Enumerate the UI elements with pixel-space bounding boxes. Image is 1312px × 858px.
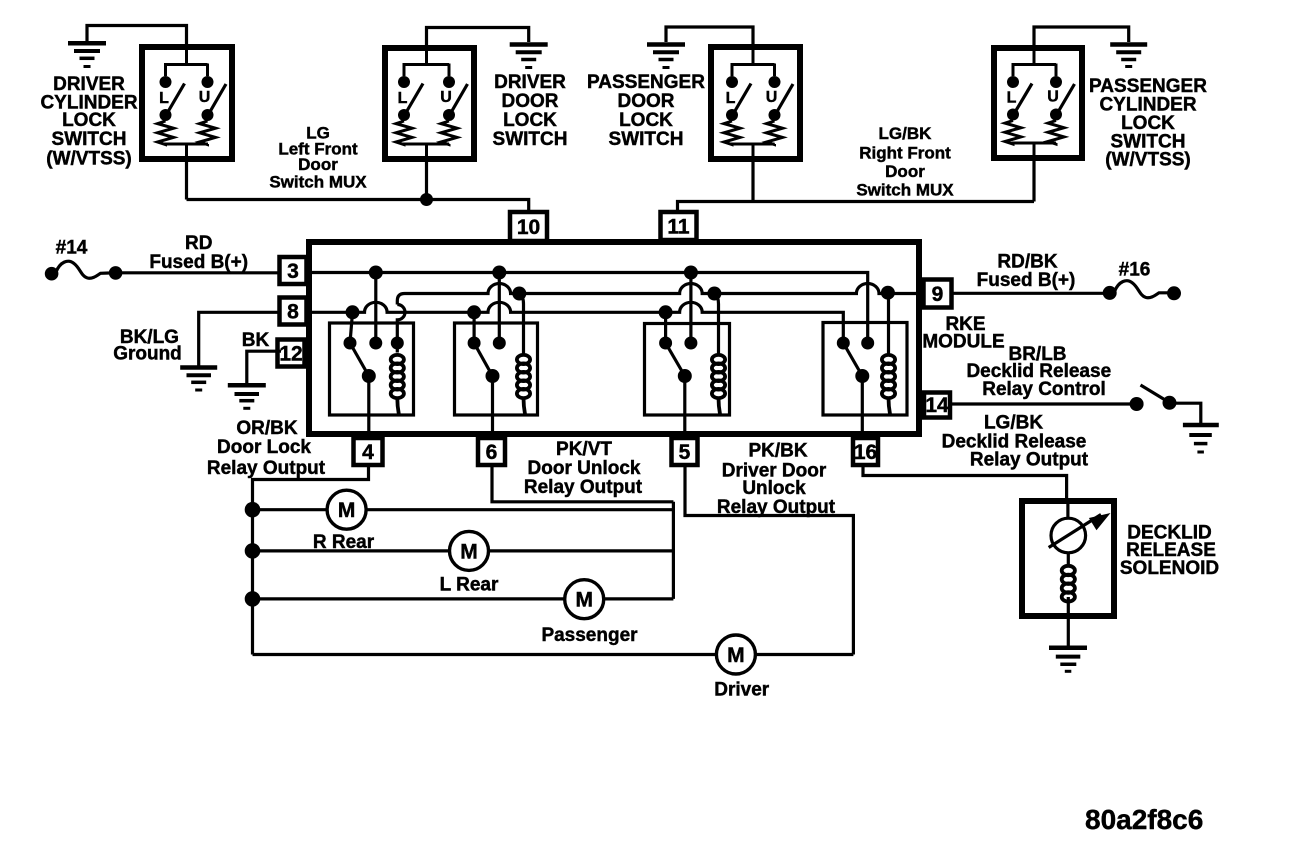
svg-text:Door Unlock: Door Unlock: [528, 458, 641, 479]
junction dot coil bus K4: [881, 286, 895, 300]
wire pin 14 to decklid release switch: [948, 402, 1130, 405]
label PASSENGER CYLINDER LOCK SWITCH (W/VTSS): [1089, 76, 1207, 171]
relay K4 coil: [882, 355, 895, 414]
wire pivot stub K2: [473, 312, 476, 343]
svg-text:SWITCH: SWITCH: [52, 129, 127, 150]
svg-text:U: U: [1047, 89, 1059, 106]
svg-text:Door: Door: [298, 155, 338, 174]
svg-text:SWITCH: SWITCH: [609, 129, 684, 150]
svg-text:BK: BK: [242, 330, 270, 351]
svg-text:LG/BK: LG/BK: [879, 124, 933, 143]
relay K2 coil: [517, 355, 530, 414]
pin 10: [510, 212, 547, 241]
relay K2 contact dots: [468, 337, 506, 384]
junction dot coil bus K2: [512, 287, 526, 301]
svg-text:U: U: [766, 89, 778, 106]
relay K3 blade: [666, 343, 685, 376]
RKE module box U1: [309, 242, 919, 434]
svg-text:6: 6: [486, 441, 498, 464]
wire motor line Passenger: [253, 597, 674, 600]
wire coil bus to pin 9 with hops: [397, 283, 922, 304]
wire bus fused B+ (pin 3): [306, 273, 868, 344]
wire motor line R Rear: [253, 508, 674, 511]
relay K4 box: [823, 323, 907, 416]
svg-text:Door Lock: Door Lock: [217, 437, 311, 458]
wire pivot stub K1: [350, 312, 353, 343]
wire K1 coil lead hop over pin8 bus: [397, 305, 405, 353]
wire K1 output to pin 4: [367, 376, 370, 440]
wire SW2 top lead to ground: [427, 28, 529, 51]
svg-text:16: 16: [854, 441, 877, 464]
relay K1 blade: [350, 343, 369, 376]
wire RD fused B+ to pin 3: [122, 271, 282, 274]
svg-text:(W/VTSS): (W/VTSS): [1105, 150, 1191, 171]
wire pin 8 to ground: [199, 312, 281, 366]
junction dot bus3 over relay K2: [492, 266, 506, 280]
motor M1 R Rear: [327, 490, 366, 529]
wire K4 output to pin 16: [861, 376, 864, 440]
wire pin 16 to decklid solenoid: [863, 463, 1067, 505]
svg-text:3: 3: [287, 260, 299, 283]
svg-text:LOCK: LOCK: [62, 110, 116, 131]
wire #16 inline connector squiggle: [1115, 281, 1168, 298]
label LG/BK Right Front Door Switch MUX: [856, 124, 954, 200]
label RKE MODULE: [922, 314, 1004, 352]
SW2 bottom bar: [403, 143, 450, 146]
ground G2 (driver door lock switch): [510, 45, 548, 68]
SW3 contact dots: [726, 76, 781, 121]
SW1 resistor right: [200, 121, 216, 145]
wire pin 9 to #16 connector: [951, 292, 1103, 295]
pin 12: [278, 340, 305, 367]
svg-text:M: M: [338, 499, 356, 522]
svg-text:L: L: [159, 90, 169, 107]
SW1 resistor left: [158, 121, 174, 145]
svg-text:Unlock: Unlock: [742, 478, 806, 499]
wire SW4 bottom lead: [1032, 158, 1035, 202]
SW4 blade L: [1013, 84, 1032, 116]
junction dot trunk line1: [245, 502, 261, 518]
svg-text:4: 4: [362, 441, 374, 464]
SW4 resistor right: [1048, 121, 1064, 145]
SW1 bottom bar: [164, 143, 208, 146]
switch box SW2 DRIVER DOOR LOCK SWITCH: [385, 48, 474, 159]
svg-text:DRIVER: DRIVER: [494, 72, 566, 93]
wire bus3 drop to K2: [498, 273, 501, 344]
junction dot pin8 bus K2: [467, 305, 481, 319]
svg-text:Fused B(+): Fused B(+): [149, 252, 248, 273]
svg-text:Relay Output: Relay Output: [970, 449, 1089, 470]
svg-text:11: 11: [667, 216, 690, 239]
wire pin 5 output: [685, 463, 853, 655]
svg-text:Door: Door: [885, 162, 925, 181]
wire SW3 bottom lead: [751, 159, 754, 202]
label RD Fused B(+): [149, 233, 248, 273]
svg-text:Relay Output: Relay Output: [207, 458, 326, 479]
svg-text:DOOR: DOOR: [618, 91, 675, 112]
SW2 contact dots: [398, 76, 455, 121]
junction dot pin8 bus K1: [346, 305, 360, 319]
svg-text:L Rear: L Rear: [440, 574, 499, 595]
wire pin 12 to ground: [247, 351, 281, 383]
switch box SW1 DRIVER CYLINDER LOCK SWITCH: [142, 47, 232, 159]
wire right trunk: [672, 502, 675, 599]
svg-text:L: L: [1007, 90, 1017, 107]
svg-text:Ground: Ground: [113, 344, 182, 365]
svg-text:R Rear: R Rear: [313, 532, 375, 553]
ground G7 decklid switch: [1183, 425, 1219, 452]
pin 6: [478, 438, 505, 465]
label BK/LG Ground: [113, 327, 182, 365]
svg-text:PASSENGER: PASSENGER: [587, 72, 705, 93]
svg-text:Passenger: Passenger: [541, 625, 638, 646]
wire SW1 bottom lead: [185, 159, 188, 200]
wire switch to ground: [1176, 403, 1201, 423]
wire pin 6 output: [492, 463, 673, 502]
relay K3 coil: [712, 355, 725, 414]
label DRIVER CYLINDER LOCK SWITCH (W/VTSS): [40, 74, 137, 170]
SW1 contact dots: [160, 76, 214, 121]
pin 11: [661, 212, 697, 240]
SW4 resistor left: [1005, 121, 1021, 145]
wire pivot stub K3: [664, 312, 667, 343]
svg-text:LOCK: LOCK: [503, 110, 557, 131]
wire SW3 top lead to ground: [666, 27, 753, 50]
ground G6 BK: [228, 385, 266, 408]
svg-text:5: 5: [679, 441, 691, 464]
wire K2 output to pin 6: [491, 376, 494, 440]
SW1 blade U: [208, 84, 227, 116]
node terminal dot: [109, 266, 123, 280]
junction dot trunk line2: [245, 543, 261, 559]
svg-text:Fused B(+): Fused B(+): [977, 270, 1076, 291]
SW3 blade U: [775, 84, 794, 116]
motor M4 Driver: [716, 635, 755, 674]
SW2 blade L: [404, 84, 423, 117]
SW3 internal ladder wires: [731, 44, 775, 162]
wire coil stub K3: [714, 294, 718, 355]
label PASSENGER DOOR LOCK SWITCH: [587, 72, 705, 150]
wire ground bus from pin 8 with hops: [306, 302, 843, 343]
label DRIVER DOOR LOCK SWITCH: [493, 72, 568, 150]
wire coil stub K2: [519, 294, 523, 355]
switch box SW3 PASSENGER DOOR LOCK SWITCH: [711, 47, 800, 159]
label PK/VT Door Unlock Relay Output: [524, 439, 643, 498]
svg-text:80a2f8c6: 80a2f8c6: [1085, 804, 1203, 835]
SW4 internal ladder wires: [1012, 45, 1057, 161]
solenoid actuator circle: [1051, 518, 1086, 553]
svg-text:8: 8: [287, 301, 299, 324]
svg-text:9: 9: [932, 283, 944, 306]
label PK/BK Driver Door Unlock Relay Output: [717, 441, 836, 518]
ground G3 (passenger door lock switch): [647, 45, 685, 68]
decklid switch blade: [1141, 385, 1169, 402]
relay K2 blade: [474, 343, 492, 376]
wire coil stub K4: [887, 293, 890, 354]
svg-text:MODULE: MODULE: [922, 331, 1004, 352]
switch box SW4 PASSENGER CYLINDER LOCK SWITCH: [994, 48, 1082, 158]
label RD/BK Fused B(+): [977, 251, 1076, 291]
solenoid coil: [1062, 566, 1075, 602]
label OR/BK Door Lock Relay Output: [207, 418, 326, 479]
svg-text:RD: RD: [185, 233, 212, 254]
SW3 bottom bar: [731, 143, 775, 146]
SW3 resistor left: [724, 121, 740, 145]
svg-text:12: 12: [279, 343, 302, 366]
svg-text:SWITCH: SWITCH: [493, 129, 568, 150]
SW2 blade U: [449, 84, 468, 116]
wire pin 4 output trunk: [253, 463, 369, 655]
relay K4 blade: [843, 343, 862, 376]
svg-text:U: U: [199, 89, 211, 106]
node terminal dot right: [1167, 286, 1181, 300]
svg-text:M: M: [575, 589, 593, 612]
ground G8 solenoid: [1049, 648, 1087, 672]
svg-text:14: 14: [925, 394, 949, 417]
solenoid circle-coil wire: [1067, 553, 1070, 567]
svg-text:Relay Control: Relay Control: [982, 379, 1106, 400]
svg-text:Switch MUX: Switch MUX: [269, 173, 367, 192]
wire right front door switch MUX to pin 11: [678, 202, 1035, 213]
svg-text:10: 10: [517, 216, 540, 239]
label DECKLID RELEASE SOLENOID: [1120, 523, 1219, 579]
pin 14: [924, 393, 950, 418]
motor M3 Passenger: [565, 580, 604, 619]
junction dot MUX left: [420, 193, 433, 206]
label LG/BK Decklid Release Relay Output: [942, 413, 1089, 471]
SW1 blade L: [166, 84, 185, 117]
wire left front door switch MUX to pin 10: [187, 200, 529, 213]
node #14 circuit terminal dot left: [45, 267, 59, 281]
relay K1 contact dots: [344, 337, 404, 384]
SW4 bottom bar: [1012, 142, 1057, 145]
solenoid to ground wire: [1067, 597, 1070, 646]
svg-text:M: M: [460, 540, 478, 563]
svg-text:Switch MUX: Switch MUX: [856, 180, 954, 199]
relay K4 contact dots: [837, 337, 874, 384]
SW3 resistor right: [767, 121, 783, 145]
junction dot bus3 over relay K3: [684, 266, 698, 280]
svg-text:L: L: [398, 90, 408, 107]
svg-text:SOLENOID: SOLENOID: [1120, 558, 1219, 579]
solenoid arrow shaft: [1049, 515, 1101, 548]
pin 16: [853, 438, 878, 465]
ground G4 (passenger cylinder lock switch): [1110, 45, 1147, 67]
relay K1 coil: [391, 355, 404, 414]
SW1 internal ladder wires: [164, 44, 208, 162]
svg-text:PK/BK: PK/BK: [748, 441, 807, 462]
svg-text:#14: #14: [56, 238, 88, 259]
svg-text:Driver: Driver: [714, 680, 770, 701]
relay K3 contact dots: [659, 337, 697, 384]
svg-text:#16: #16: [1119, 260, 1151, 281]
svg-text:LOCK: LOCK: [619, 110, 673, 131]
wire bottom line Driver: [253, 653, 854, 656]
wire SW1 top lead to ground: [87, 26, 187, 51]
svg-text:M: M: [727, 644, 745, 667]
svg-text:Right Front: Right Front: [859, 143, 951, 162]
wire K3 output to pin 5: [683, 376, 686, 440]
node switch contact dot left: [1130, 397, 1144, 411]
SW4 contact dots: [1007, 76, 1062, 121]
svg-text:U: U: [440, 89, 452, 106]
junction dot coil bus K3: [707, 287, 721, 301]
motor M2 L Rear: [450, 531, 489, 570]
relay K2 box: [455, 323, 538, 415]
label BR/LB Decklid Release Relay Control: [966, 344, 1111, 400]
pin 5: [672, 438, 698, 465]
node terminal dot pin9 wire: [1103, 286, 1117, 300]
svg-text:L: L: [726, 90, 736, 107]
junction dot pin8 bus K3: [659, 305, 673, 319]
junction dot bus3 over relay K1: [369, 266, 383, 280]
wire motor line L Rear: [253, 549, 674, 552]
SW2 internal ladder wires: [403, 45, 450, 162]
svg-text:(W/VTSS): (W/VTSS): [46, 149, 132, 170]
svg-text:PK/VT: PK/VT: [556, 439, 612, 460]
wire SW4 top lead to ground: [1034, 27, 1129, 50]
SW2 resistor right: [441, 121, 457, 145]
wire bus3 drop to K3: [689, 273, 692, 344]
SW3 blade L: [732, 84, 751, 117]
svg-text:DOOR: DOOR: [502, 91, 559, 112]
pin 9: [924, 280, 952, 308]
label LG Left Front Door Switch MUX: [269, 124, 367, 192]
ground G5 BK/LG: [180, 368, 217, 391]
pin 3: [280, 257, 307, 284]
SW4 blade U: [1056, 84, 1075, 116]
pin 4: [354, 438, 383, 465]
solenoid arrowhead: [1089, 513, 1111, 530]
decklid release solenoid box: [1022, 501, 1114, 616]
junction dot trunk line3: [245, 591, 261, 607]
pin 8: [280, 298, 307, 325]
solenoid entry wire: [1066, 501, 1069, 519]
ground G1 (driver cylinder lock switch): [68, 43, 106, 66]
svg-text:Relay Output: Relay Output: [524, 477, 643, 498]
relay K3 box: [645, 324, 730, 416]
node switch contact dot right: [1163, 396, 1177, 410]
SW2 resistor left: [396, 121, 412, 145]
wire bus3 drop to K1: [374, 273, 377, 344]
wire SW2 bottom lead: [425, 159, 428, 200]
relay K1 box: [330, 323, 414, 415]
wire #14 inline connector squiggle: [56, 261, 109, 278]
